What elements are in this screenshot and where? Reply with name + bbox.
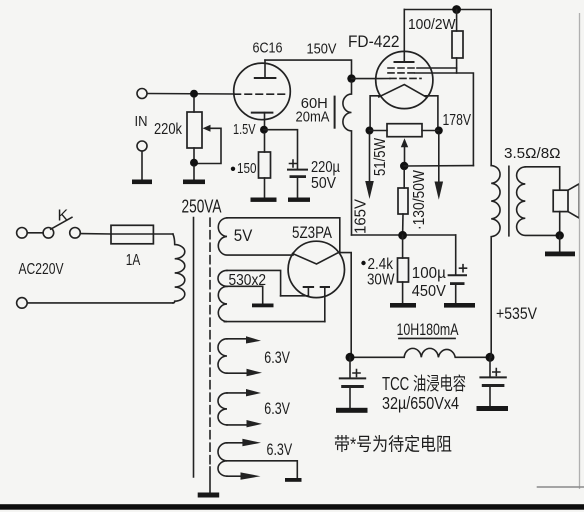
- svg-text:6C16: 6C16: [253, 41, 283, 57]
- ground input jack: [132, 180, 152, 185]
- triode U1 6C16 envelope: [234, 63, 291, 120]
- ground *150: [251, 198, 277, 202]
- scan artifact line bottom right: [537, 486, 584, 488]
- svg-text:6.3V: 6.3V: [264, 349, 290, 367]
- capacitor C 220u/50V: [288, 160, 307, 198]
- 6C16 grid (dashed): [234, 93, 286, 95]
- label 32u/650Vx4: [382, 393, 459, 413]
- svg-text:530x2: 530x2: [229, 272, 267, 289]
- secondary winding 5V: [218, 218, 293, 255]
- ground pot: [183, 166, 205, 184]
- choke L1 60H coil: [343, 82, 352, 235]
- label FD-422: [348, 33, 400, 51]
- ground right 32u cap: [477, 406, 509, 411]
- label 100u: [412, 265, 446, 282]
- 6C16 plate: [255, 60, 276, 78]
- FD-422 grid row1 (dashed): [388, 67, 417, 69]
- label 5Z3PA: [292, 224, 332, 242]
- svg-text:220µ: 220µ: [311, 159, 340, 176]
- svg-text:220k: 220k: [154, 121, 183, 138]
- svg-text:165V: 165V: [353, 198, 370, 234]
- svg-text:TCC 油浸电容: TCC 油浸电容: [382, 374, 466, 394]
- node B+ left: [346, 353, 355, 362]
- label 6.3V no.3: [267, 441, 293, 459]
- label 1A: [126, 252, 141, 269]
- label K: [58, 208, 69, 225]
- svg-text:2.4k: 2.4k: [368, 256, 394, 273]
- scan artifact page edge right: [579, 13, 581, 489]
- ground 6.3V no.3: [285, 478, 302, 482]
- svg-text:450V: 450V: [412, 283, 446, 300]
- secondary winding 6.3V no.2: [218, 393, 227, 425]
- output transformer secondary: [517, 167, 556, 236]
- svg-text:6.3V: 6.3V: [264, 400, 290, 418]
- wire grid row2 to right bend: [415, 73, 473, 166]
- label 178V: [443, 112, 472, 129]
- svg-text:FD-422: FD-422: [348, 33, 400, 51]
- svg-text:3.5Ω/8Ω: 3.5Ω/8Ω: [504, 146, 561, 162]
- label 450V: [412, 283, 446, 300]
- fuse F 1A: [111, 225, 173, 244]
- label 51/5W (rotated): [372, 138, 389, 176]
- label 1.5V: [233, 121, 256, 138]
- resistor *130/50W: [398, 170, 408, 235]
- label 60H: [301, 96, 328, 112]
- node 165V rail: [398, 231, 407, 240]
- top rail wire: [404, 10, 491, 166]
- input jack upper terminal: [137, 89, 147, 99]
- label 6C16: [253, 41, 283, 57]
- hum pot R 51/5W: [370, 124, 439, 137]
- label 530x2: [229, 272, 267, 289]
- svg-text:250VA: 250VA: [182, 197, 222, 217]
- wire+arrow 6.3V no.3 bottom: [227, 472, 261, 479]
- svg-text:AC220V: AC220V: [19, 261, 65, 278]
- label 6.3V no.1: [264, 349, 290, 367]
- svg-text:6.3V: 6.3V: [267, 441, 293, 459]
- label 100/2W: [408, 16, 456, 33]
- svg-text:10H180mA: 10H180mA: [397, 321, 459, 339]
- label 220k: [154, 121, 183, 138]
- wire HV top to plate1: [281, 295, 309, 297]
- transformer core dashed line: [209, 218, 211, 492]
- node cathode 6C16: [260, 126, 268, 134]
- svg-text:带*号为待定电阻: 带*号为待定电阻: [334, 435, 452, 455]
- input terminal lower: [17, 298, 28, 309]
- label 6.3V no.2: [264, 400, 290, 418]
- transformer core solid line: [193, 218, 195, 477]
- label AC220V: [19, 261, 65, 278]
- arrow filament right down: [435, 134, 444, 200]
- tetrode U2 FD-422 envelope: [376, 51, 433, 108]
- node B+ right: [486, 353, 495, 362]
- svg-text:51/5W: 51/5W: [372, 138, 389, 176]
- wire 6C16 plate to 150V node: [265, 60, 352, 79]
- svg-text:100/2W: 100/2W: [408, 16, 456, 33]
- node pot bottom: [190, 159, 198, 167]
- wire terminal3 to fuse: [80, 233, 111, 235]
- label 250VA: [182, 197, 222, 217]
- svg-text:30W: 30W: [367, 272, 395, 289]
- ground 100u cap: [444, 303, 475, 308]
- node speaker return: [556, 231, 564, 239]
- wire filament left to hum pot: [370, 96, 381, 131]
- svg-text:+535V: +535V: [496, 304, 538, 323]
- ground speaker: [545, 236, 575, 257]
- svg-text:IN: IN: [135, 113, 148, 130]
- wire+arrow 6.3V no.1 top: [227, 336, 261, 343]
- FD-422 plate: [395, 10, 414, 63]
- label 5V: [234, 227, 253, 245]
- label IN: [135, 113, 148, 130]
- node 150V: [347, 74, 355, 82]
- wire terminal1 to terminal2: [27, 232, 43, 234]
- output transformer T2 primary: [491, 166, 500, 358]
- capacitor C filter left 32u: [340, 357, 365, 407]
- 5Z3PA plate 1: [304, 287, 313, 296]
- wire+arrow 6.3V no.2 top: [227, 389, 261, 396]
- node top rail: [452, 5, 461, 14]
- svg-text:150V: 150V: [307, 41, 337, 58]
- label 20mA: [296, 109, 330, 125]
- transformer primary winding: [173, 234, 185, 303]
- 5Z3PA filament: [293, 253, 339, 265]
- wire secondary top to speaker: [525, 167, 559, 190]
- secondary winding 530x2 lower: [218, 286, 227, 321]
- svg-text:20mA: 20mA: [296, 109, 330, 125]
- node filament right: [435, 127, 443, 135]
- label 165V (rotated): [353, 198, 370, 234]
- label 50V: [311, 175, 336, 192]
- svg-text:32µ/650Vx4: 32µ/650Vx4: [382, 393, 459, 413]
- ground *2.4k: [390, 303, 416, 308]
- secondary winding 6.3V no.3: [218, 443, 227, 476]
- label *150: [231, 160, 257, 177]
- underline 10H180mA: [399, 337, 455, 339]
- label 150V: [307, 41, 337, 58]
- wire 530x2 center tap: [227, 286, 263, 303]
- node A input/pot/grid junction: [190, 90, 198, 98]
- capacitor C 100u/450V: [449, 235, 467, 304]
- output transformer core: [508, 166, 510, 236]
- svg-text:178V: 178V: [443, 112, 472, 129]
- svg-text:K: K: [58, 208, 69, 225]
- label TCC oil caps: [382, 374, 466, 394]
- wire cathode to cap: [264, 130, 298, 169]
- label 30W: [367, 272, 395, 289]
- label 3.5ohm/8ohm: [504, 146, 561, 162]
- wire grid row1 to 100/2W lead: [417, 67, 457, 69]
- wire input to grid node: [147, 93, 234, 96]
- hum pot wiper arrow: [401, 138, 408, 166]
- svg-text:1.5V: 1.5V: [233, 121, 256, 138]
- 5Z3PA plate 2: [321, 287, 329, 322]
- wire 6.3V no.3 center tap: [227, 461, 297, 479]
- svg-text:50V: 50V: [311, 175, 336, 192]
- wire+arrow 6.3V no.1 bottom: [227, 369, 262, 376]
- label *130/50W (rotated): [411, 170, 428, 230]
- rectifier U3 5Z3PA envelope: [288, 241, 344, 297]
- wire 150V node to FD-422 grid: [352, 78, 391, 80]
- note label: [334, 435, 452, 455]
- ground left 32u cap: [336, 408, 368, 413]
- FD-422 grid row2 (dashed): [388, 72, 415, 74]
- switch K blade: [51, 217, 72, 229]
- label 220u: [311, 159, 340, 176]
- input jack lower terminal: [137, 141, 147, 179]
- arrow filament left down: [365, 134, 374, 199]
- wire lower terminal to primary: [27, 302, 173, 304]
- potentiometer R 220k: [187, 98, 202, 163]
- ground 220u cap: [288, 198, 310, 202]
- svg-text:5Z3PA: 5Z3PA: [292, 224, 332, 242]
- 165V rail wire: [352, 234, 456, 236]
- ground 530x2 center tap: [252, 304, 274, 308]
- choke L1 60H 20mA core bar: [334, 97, 336, 128]
- resistor *150: [259, 133, 271, 198]
- FD-422 filament: [379, 85, 426, 97]
- wire+arrow 6.3V no.3 top: [227, 439, 261, 446]
- label 10H180mA: [397, 321, 459, 339]
- filter choke L2 10H 180mA: [350, 348, 486, 357]
- svg-text:100µ: 100µ: [412, 265, 446, 282]
- wire+arrow 6.3V no.2 bottom: [227, 420, 262, 427]
- svg-text:·130/50W: ·130/50W: [411, 170, 428, 230]
- wire rectifier output: [339, 253, 352, 358]
- 6C16 cathode: [252, 113, 273, 130]
- power transformer T1 primary circuit: switch K terminals: [17, 228, 81, 239]
- resistor 100/2W: [452, 10, 463, 74]
- secondary winding 6.3V no.1: [218, 339, 227, 373]
- wiper arrow of 220k: [198, 125, 221, 164]
- label +535V: [496, 304, 538, 323]
- svg-text:1A: 1A: [126, 252, 141, 269]
- wire wiper to grid bend: [404, 165, 473, 167]
- wire 5V top lead: [227, 218, 340, 252]
- wire 530x2 top lead: [227, 270, 281, 295]
- svg-text:5V: 5V: [234, 227, 253, 245]
- wire filament right to hum pot: [425, 96, 438, 131]
- scan black bar bottom: [0, 504, 584, 510]
- wire HV bottom to plate2: [225, 321, 325, 323]
- resistor *2.4k/30W: [398, 235, 409, 303]
- ground transformer core: [198, 493, 220, 498]
- secondary winding 530x2 upper: [218, 270, 227, 286]
- FD-422 grid row3 (dashed): [390, 77, 421, 79]
- svg-text:150: 150: [237, 160, 257, 177]
- label *2.4k: [361, 256, 394, 273]
- node wiper: [400, 162, 408, 170]
- capacitor C filter right 32u: [480, 357, 505, 406]
- node filament left: [366, 127, 374, 135]
- speaker LS1: [553, 184, 579, 236]
